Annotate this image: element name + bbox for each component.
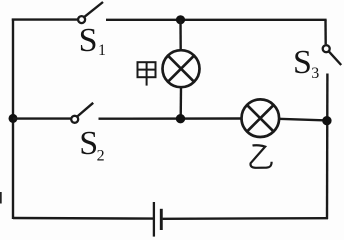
switch S2 contact circle bbox=[71, 116, 78, 123]
svg-text:3: 3 bbox=[311, 65, 319, 82]
switch S3 contact circle bbox=[323, 45, 330, 52]
wire: lamp jia branch, upper segment bbox=[179, 20, 182, 51]
battery: short plate bbox=[160, 209, 163, 230]
wire: right vertical below S3 bbox=[326, 74, 329, 220]
wire: lamp jia branch, lower segment bbox=[179, 87, 182, 119]
wire: middle, from S2 to lamp yi bbox=[99, 117, 243, 120]
lamp jia (bulb: circle with X) bbox=[163, 50, 200, 87]
switch S1 contact circle bbox=[78, 16, 85, 23]
battery: long plate bbox=[153, 202, 155, 237]
lamp yi (bulb: circle with X) bbox=[241, 99, 279, 137]
wire: top side, from S1 to top-right corner bbox=[106, 19, 327, 21]
switch S3 lever bbox=[329, 51, 342, 65]
scan artifact: dark mark at left edge bbox=[0, 192, 2, 204]
node: junction middle wire at left side bbox=[9, 114, 18, 123]
wire: middle, from lamp yi to right side bbox=[279, 119, 327, 121]
node: junction middle wire at right side bbox=[322, 116, 331, 125]
wire: bottom side, left segment to battery bbox=[13, 217, 153, 220]
svg-text:S: S bbox=[79, 22, 98, 59]
node: junction on top wire (lamp jia branch top) bbox=[176, 15, 185, 24]
wire: left vertical side bbox=[12, 19, 14, 220]
wire: middle, from left side to switch S2 bbox=[13, 117, 72, 119]
node: junction middle wire at lamp jia branch bbox=[176, 114, 185, 123]
svg-text:S: S bbox=[293, 44, 312, 81]
svg-text:S: S bbox=[79, 125, 98, 162]
wire: right vertical above switch S3 bbox=[324, 20, 327, 44]
svg-text:1: 1 bbox=[98, 42, 106, 59]
wire: bottom side, right segment from battery bbox=[163, 217, 328, 220]
svg-text:2: 2 bbox=[97, 148, 105, 165]
label jia (Chinese character drawn as strokes) bbox=[138, 62, 156, 85]
switch S1 lever bbox=[84, 2, 103, 17]
switch S2 lever bbox=[77, 103, 93, 117]
label yi (Chinese character drawn as strokes) bbox=[251, 145, 272, 168]
wire: top side, left segment to switch S1 bbox=[12, 18, 79, 20]
